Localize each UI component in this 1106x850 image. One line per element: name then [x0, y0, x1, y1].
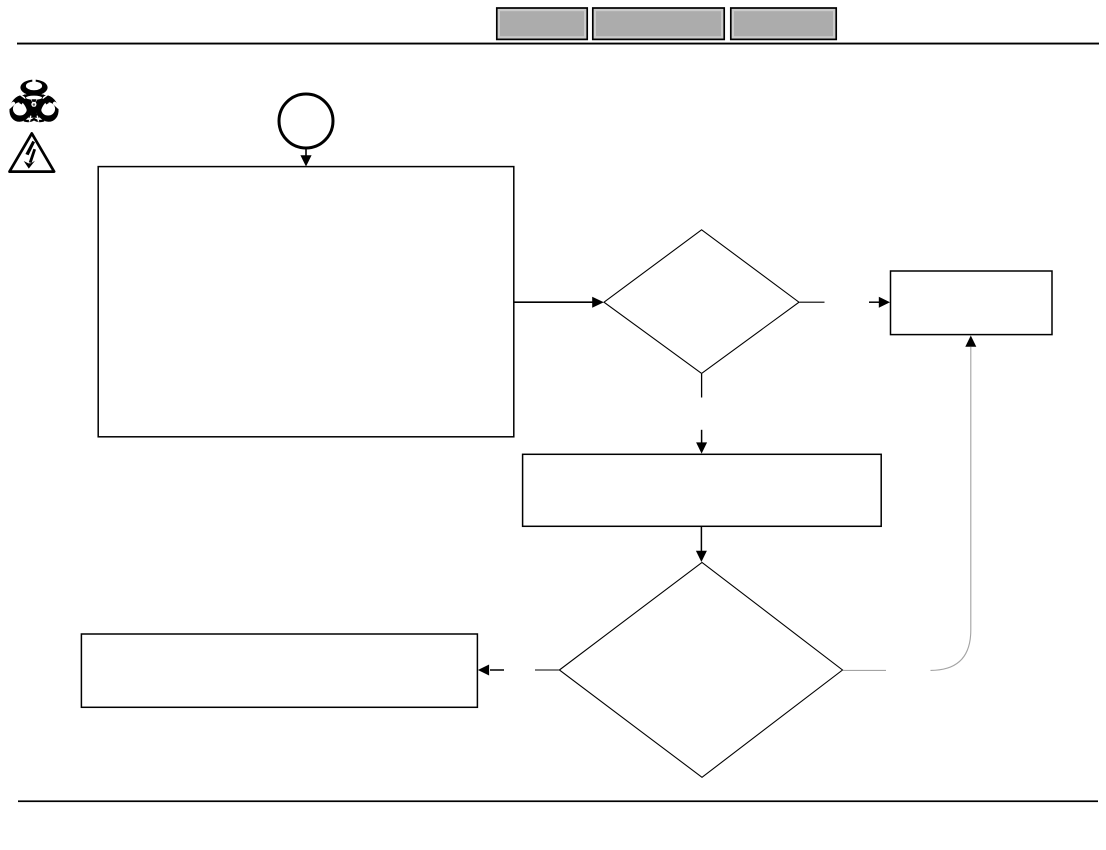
wire large box to diamond 1 — [515, 301, 593, 303]
arrowhead into large box — [300, 155, 311, 166]
arrowhead into diamond 1 — [592, 297, 604, 308]
bottom-left action box — [81, 634, 477, 707]
diamond 1 — [604, 230, 799, 374]
wire diamond 1 right (segment) — [800, 301, 825, 303]
diamond 2 — [559, 562, 842, 777]
middle process box — [523, 454, 882, 526]
arrowhead into bottom-left box — [478, 665, 489, 676]
wire diamond 1 bottom (segment) — [701, 374, 703, 398]
arrowhead into middle box — [696, 442, 707, 453]
start circle — [279, 94, 333, 148]
nav button 3 — [731, 8, 836, 39]
wire into top-right box — [869, 301, 880, 303]
wire middle box to diamond 2 — [700, 527, 702, 552]
arrowhead into top-right box — [879, 297, 890, 308]
large process box — [98, 167, 514, 437]
feedback wire curve up to top-right box — [931, 347, 971, 670]
wire into bottom-left box — [490, 669, 504, 671]
biohazard icon — [5, 78, 62, 126]
arrowhead into diamond 2 — [696, 551, 707, 562]
wire diamond 2 right (segment) — [843, 669, 886, 671]
nav button 2 — [593, 8, 724, 39]
arrowhead into bottom of top-right box — [965, 336, 976, 347]
top-right result box — [891, 271, 1053, 335]
wire diamond 2 left (segment) — [535, 669, 559, 671]
wire circle to large box — [305, 149, 307, 157]
footer rule — [18, 800, 1098, 802]
electrical hazard icon — [10, 133, 55, 171]
nav button 1 — [497, 8, 587, 39]
wire into middle box — [701, 430, 703, 443]
header rule — [17, 43, 1099, 45]
